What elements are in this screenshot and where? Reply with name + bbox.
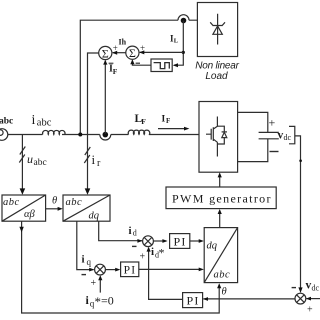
minus sigma2 (136, 62, 140, 64)
svg-text:abc: abc (66, 197, 83, 208)
wire PI3 to i_d sum (147, 247, 183, 300)
svg-text:Load: Load (205, 71, 228, 82)
wire dc link (238, 112, 268, 161)
svg-text:+: + (91, 278, 97, 289)
svg-text:F: F (166, 117, 170, 125)
inverter box (199, 102, 238, 173)
label IF bar (109, 63, 118, 76)
minus i_d sum (132, 245, 137, 247)
3-phase slash i_r (84, 147, 90, 163)
node vdc sense tick (299, 159, 302, 162)
svg-text:dq: dq (89, 211, 100, 222)
wire i_d from block2 (99, 221, 143, 243)
label L_F (135, 113, 147, 126)
plus sigma1 (113, 43, 118, 53)
wire i_q ref in (98, 275, 102, 292)
op sum vdc (295, 293, 306, 304)
IGBT Q1 (206, 117, 227, 157)
thyristor D1 (210, 14, 225, 45)
svg-text:F: F (141, 117, 146, 126)
svg-text:i: i (92, 152, 96, 167)
svg-text:abc: abc (0, 117, 13, 127)
wire bus (8, 134, 200, 136)
wire u_abc tap (20, 135, 26, 195)
PWM box (166, 187, 276, 209)
source G1 (0, 129, 8, 141)
load box (197, 3, 237, 57)
wire PI1 to block3 (190, 239, 204, 243)
wire I_F direction arrow (158, 127, 189, 131)
svg-text:*: * (159, 246, 165, 260)
label plus cap (269, 116, 276, 130)
wire I_L sense (173, 21, 184, 68)
svg-text:i: i (32, 113, 36, 128)
svg-text:PI: PI (186, 293, 199, 307)
svg-text:u: u (27, 152, 33, 166)
wire PWM to inverter (218, 172, 222, 186)
minus i_q sum (82, 274, 87, 276)
svg-text:PWM generatror: PWM generatror (172, 191, 272, 205)
label i_abc (32, 113, 52, 129)
label minus cap (270, 151, 279, 153)
svg-text:+: + (307, 305, 313, 316)
svg-text:θ: θ (222, 287, 227, 298)
node feeder-bus (78, 133, 82, 137)
svg-text:F: F (113, 67, 118, 76)
plus i_d sum (140, 252, 146, 263)
PI2 box (121, 262, 139, 277)
svg-text:Σ: Σ (102, 46, 109, 60)
label theta low (222, 287, 227, 298)
wire PI2 to block3 (139, 268, 204, 272)
wire vdc sense down (295, 136, 303, 293)
label Non linear Load (195, 60, 239, 82)
wire i_q sum to PI2 (105, 268, 120, 272)
svg-text:Σ: Σ (129, 46, 136, 60)
svg-text:Non linear: Non linear (195, 60, 239, 71)
inductor i_abc (43, 130, 66, 134)
svg-text:=0: =0 (101, 294, 114, 308)
svg-text:abc: abc (34, 158, 47, 168)
label i_r (92, 152, 102, 169)
node I_L branch (182, 51, 185, 54)
op sigma1 (99, 46, 112, 60)
svg-text:+: + (140, 252, 146, 263)
svg-text:θ: θ (52, 196, 57, 207)
label i_q ref =0 (86, 293, 114, 309)
op sum i_q (95, 264, 106, 275)
wire filter to sigma2 (130, 59, 151, 65)
label i_d (129, 225, 137, 238)
3-phase slash u_abc (19, 147, 25, 163)
wire block3 to PWM (218, 209, 222, 227)
plus sigma2 (140, 43, 145, 53)
label i_d ref (151, 246, 165, 260)
block1 abc-alphabeta (2, 195, 46, 221)
op sigma2 (126, 46, 139, 60)
wire sigma2 to sigma1 (112, 51, 126, 55)
capacitor Cdc (259, 132, 279, 138)
label v_dc low (306, 280, 320, 293)
svg-text:αβ: αβ (24, 209, 36, 220)
label I_F (162, 114, 171, 125)
filter block F1 (151, 59, 172, 72)
wire IF measured to sigma1 (103, 60, 107, 134)
op sum i_d (143, 236, 154, 247)
svg-text:i: i (82, 254, 85, 266)
svg-text:abc: abc (3, 197, 20, 208)
svg-text:Ih: Ih (119, 38, 127, 47)
wire I_L to sigma2 (139, 50, 183, 54)
svg-text:dq: dq (207, 241, 218, 252)
svg-text:abc: abc (37, 118, 52, 129)
svg-text:L: L (174, 37, 179, 44)
svg-text:dc: dc (312, 284, 320, 293)
svg-text:q: q (87, 257, 92, 267)
label i_q (82, 254, 92, 268)
label u_abc (27, 152, 47, 168)
wire sigma1 out i_r (85, 53, 99, 195)
wire vdc ref in (306, 297, 320, 301)
node load tap (181, 18, 187, 24)
svg-text:+: + (113, 43, 118, 53)
PI3 box (183, 293, 203, 308)
wire theta loop (19, 221, 221, 313)
wire theta block1 to block2 (46, 207, 63, 211)
wire hop over node top (178, 15, 197, 20)
svg-text:i: i (129, 225, 132, 237)
svg-text:I: I (162, 114, 166, 124)
plus i_q sum (91, 278, 97, 289)
svg-text:+: + (269, 116, 276, 130)
label Ih (119, 38, 127, 47)
svg-text:PI: PI (124, 265, 137, 277)
svg-text:d: d (133, 229, 137, 238)
PI1 box (170, 234, 190, 249)
svg-text:PI: PI (173, 234, 186, 248)
minus vdc sum (292, 287, 296, 289)
label I_L (170, 33, 179, 44)
plus vdc sum (307, 305, 313, 316)
label theta mid (52, 196, 57, 207)
inductor L_F (128, 130, 150, 134)
label v_dc cap (278, 130, 292, 143)
wire hop under node (100, 135, 111, 141)
svg-text:dc: dc (284, 133, 292, 142)
svg-text:r: r (97, 158, 101, 169)
bracket vdc sense (289, 126, 295, 143)
node bus-filter junction (103, 132, 109, 138)
svg-text:i: i (151, 246, 154, 258)
svg-text:+: + (140, 43, 145, 53)
wire feeder up-left (80, 20, 178, 134)
block2 abc-dq (63, 195, 110, 222)
svg-text:abc: abc (214, 270, 231, 281)
block3 dq-abc (204, 228, 237, 283)
wire i_q from block2 (77, 221, 95, 271)
wire i_d sum to PI1 (153, 239, 167, 243)
wire vdc sum to PI3 (203, 297, 295, 301)
